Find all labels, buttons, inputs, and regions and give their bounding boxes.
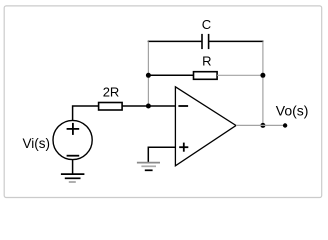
wire: top feedback row right of capacitor <box>209 40 264 42</box>
op-amp non-inverting pin plus label <box>179 143 188 152</box>
source Vi circle <box>53 120 92 159</box>
wire: resistor 2R to op-amp inverting input <box>122 105 175 107</box>
wire: right feedback vertical (gray) <box>262 41 264 125</box>
resistor R body <box>194 72 218 80</box>
wire: left feedback vertical (gray) <box>147 41 149 106</box>
node: junction right vertical x output row <box>260 123 265 128</box>
ground under Vi <box>61 174 85 182</box>
capacitor C plates <box>202 34 209 49</box>
resistor 2R body <box>99 103 123 111</box>
border frame <box>4 6 322 198</box>
wire: top feedback row left of capacitor <box>148 40 202 42</box>
wire: op-amp output (gray) <box>236 124 285 126</box>
node: junction left vertical x inverting input <box>146 104 151 109</box>
op-amp inverting pin minus label <box>178 105 188 107</box>
ground at non-inverting input <box>137 163 160 171</box>
op-amp triangle <box>175 87 236 166</box>
svg-text:Vi(s): Vi(s) <box>22 136 50 151</box>
svg-text:R: R <box>202 54 211 69</box>
svg-text:C: C <box>202 17 211 32</box>
wire: R row from left node to resistor <box>148 74 193 76</box>
wire: R row from resistor to right vertical (gray) <box>217 74 263 76</box>
wire: Vi bottom to ground <box>72 160 74 174</box>
svg-text:2R: 2R <box>103 85 120 100</box>
node: junction right vertical x R row <box>260 73 265 78</box>
wire: non-inverting input to ground <box>148 147 175 162</box>
node: junction left vertical x R row <box>146 73 151 78</box>
wire: Vi to resistor 2R <box>73 106 99 121</box>
source Vi plus sign <box>67 123 80 135</box>
node: output terminal dot <box>283 123 287 127</box>
svg-text:Vo(s): Vo(s) <box>276 103 309 119</box>
source Vi minus sign <box>67 155 80 157</box>
